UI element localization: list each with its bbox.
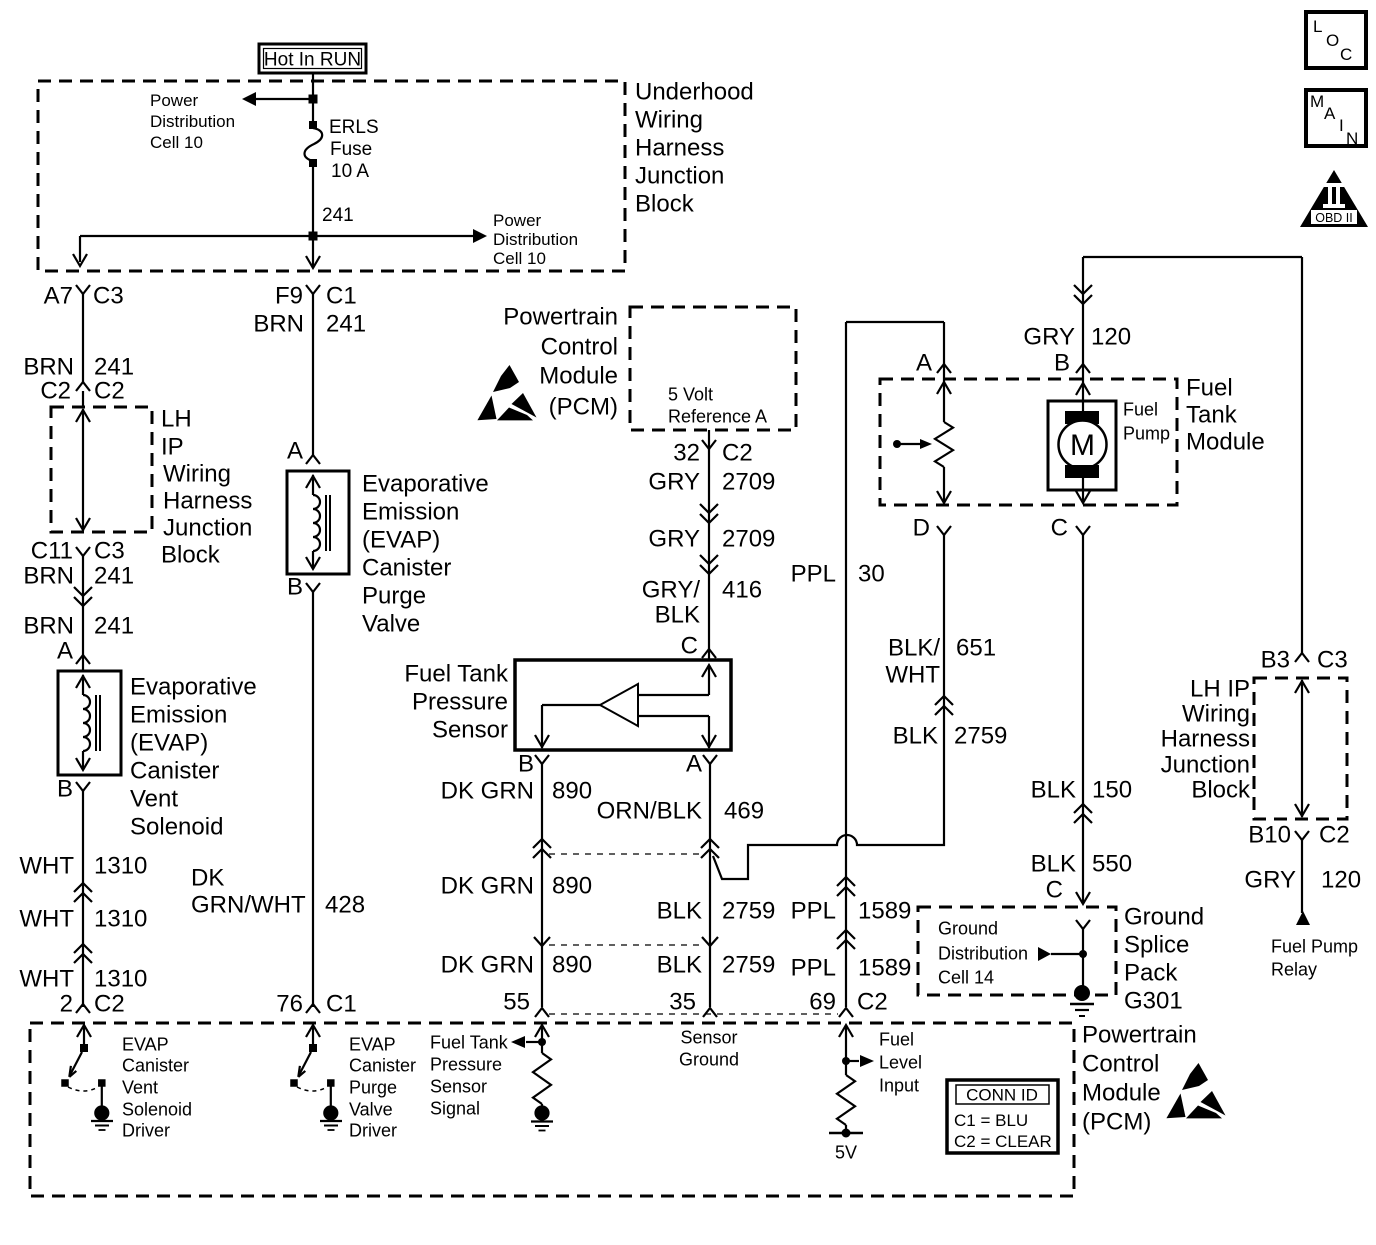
wire GRY 120 to fuel pump relay xyxy=(1301,840,1303,913)
pressure sensor internal input from C xyxy=(702,665,716,677)
svg-text:GRY: GRY xyxy=(1244,867,1296,894)
svg-text:C2: C2 xyxy=(40,378,71,405)
wire branch to Power Distribution (right) xyxy=(80,235,474,237)
svg-text:GRY: GRY xyxy=(648,526,700,553)
svg-text:M: M xyxy=(1070,429,1095,462)
connector at ground splice xyxy=(1076,920,1090,929)
svg-text:241: 241 xyxy=(94,613,134,640)
splice chevrons on sensor ground wire xyxy=(701,839,719,848)
svg-text:C2: C2 xyxy=(1319,822,1350,849)
fuel level sender resistor xyxy=(943,379,945,422)
svg-text:Tank: Tank xyxy=(1186,402,1238,429)
svg-text:1310: 1310 xyxy=(94,853,147,880)
svg-text:2759: 2759 xyxy=(722,952,775,979)
svg-text:5 Volt: 5 Volt xyxy=(668,385,713,405)
svg-text:LH: LH xyxy=(161,406,192,433)
PCM dashed box xyxy=(30,1023,1074,1196)
arrow down at junction block exit left xyxy=(73,254,87,266)
svg-text:Canister: Canister xyxy=(130,758,219,785)
svg-text:Valve: Valve xyxy=(349,1100,393,1120)
svg-text:Powertrain: Powertrain xyxy=(503,304,618,331)
svg-text:BLK: BLK xyxy=(1031,851,1076,878)
svg-text:C1 = BLU: C1 = BLU xyxy=(954,1111,1028,1130)
svg-text:1310: 1310 xyxy=(94,966,147,993)
svg-text:76: 76 xyxy=(276,991,303,1018)
fuel level input (pin 69) xyxy=(839,1025,853,1037)
wire to ground G301 xyxy=(1082,929,1084,986)
splice chevrons on GRY 2709 upper xyxy=(700,504,718,513)
svg-text:Evaporative: Evaporative xyxy=(130,674,257,701)
svg-text:Cell 10: Cell 10 xyxy=(150,133,203,152)
svg-text:C2: C2 xyxy=(94,991,125,1018)
svg-text:Vent: Vent xyxy=(122,1078,158,1098)
svg-text:Relay: Relay xyxy=(1271,960,1317,980)
svg-text:890: 890 xyxy=(552,778,592,805)
svg-text:Ground: Ground xyxy=(938,919,998,939)
CONN ID legend box xyxy=(947,1080,1058,1153)
junction node at distribution branch xyxy=(309,232,318,241)
svg-text:Harness: Harness xyxy=(1161,726,1250,753)
svg-text:IP: IP xyxy=(161,434,184,461)
svg-text:OBD II: OBD II xyxy=(1315,211,1353,225)
wire BLK/WHT 651 - BLK 2759 from sender D xyxy=(713,535,944,879)
wire DK GRN/WHT 428 to PCM pin 76 xyxy=(312,592,314,1007)
svg-text:LH IP: LH IP xyxy=(1190,676,1250,703)
wire BRN 241 (C11 to solenoid) xyxy=(82,556,84,671)
splice chevrons on PPL lower xyxy=(837,930,855,939)
off-page arrow from Fuel Pump Relay xyxy=(1296,911,1310,925)
svg-text:BRN: BRN xyxy=(253,311,304,338)
svg-text:Module: Module xyxy=(1186,429,1265,456)
svg-text:C1: C1 xyxy=(326,991,357,1018)
svg-text:A: A xyxy=(1324,104,1336,123)
svg-text:B: B xyxy=(518,751,534,778)
svg-text:C: C xyxy=(1051,515,1068,542)
EVAP canister vent solenoid driver (pin 2) xyxy=(77,1025,91,1037)
svg-text:Ground: Ground xyxy=(1124,904,1204,931)
svg-text:ERLS: ERLS xyxy=(329,117,379,138)
svg-text:890: 890 xyxy=(552,952,592,979)
svg-text:Powertrain: Powertrain xyxy=(1082,1022,1197,1049)
harness dashed line lower xyxy=(549,944,702,946)
svg-text:Emission: Emission xyxy=(130,702,227,729)
svg-text:F9: F9 xyxy=(275,283,303,310)
wire branch to Power Distribution (left) xyxy=(252,98,313,100)
svg-text:WHT: WHT xyxy=(19,966,74,993)
svg-text:428: 428 xyxy=(325,892,365,919)
splice chevrons on BLK/WHT 651 xyxy=(935,696,953,705)
svg-text:B10: B10 xyxy=(1248,822,1291,849)
svg-text:GRY: GRY xyxy=(648,469,700,496)
svg-text:Harness: Harness xyxy=(635,135,724,162)
splice chevrons on DK GRN 890 upper xyxy=(533,839,551,848)
svg-text:890: 890 xyxy=(552,873,592,900)
splice chevrons on PPL upper xyxy=(837,877,855,886)
Hot In RUN power label box xyxy=(259,44,366,73)
svg-text:Canister: Canister xyxy=(122,1056,189,1076)
svg-text:PPL: PPL xyxy=(791,898,836,925)
svg-text:Pressure: Pressure xyxy=(412,689,508,716)
splice chevrons on WHT 1310 upper xyxy=(74,883,92,892)
svg-text:I: I xyxy=(1339,116,1344,135)
wire DK GRN 890 to PCM pin 55 xyxy=(541,764,543,1007)
svg-text:BLK: BLK xyxy=(657,898,702,925)
ESD sensitivity symbol bottom xyxy=(1166,1063,1225,1118)
EVAP canister purge valve driver (pin 76) xyxy=(306,1025,320,1037)
svg-text:EVAP: EVAP xyxy=(349,1035,396,1055)
wire drop to A7 connector xyxy=(79,236,81,262)
svg-text:A7: A7 xyxy=(44,283,73,310)
svg-text:Input: Input xyxy=(879,1076,919,1096)
svg-text:O: O xyxy=(1326,31,1339,50)
splice chevrons on BLK 150 xyxy=(1074,804,1092,813)
svg-text:Cell 10: Cell 10 xyxy=(493,249,546,268)
svg-text:2759: 2759 xyxy=(954,723,1007,750)
svg-text:Pack: Pack xyxy=(1124,960,1178,987)
svg-text:ORN/BLK: ORN/BLK xyxy=(597,798,702,825)
svg-text:1589: 1589 xyxy=(858,955,911,982)
svg-text:69: 69 xyxy=(809,989,836,1016)
branch to Ground Distribution Cell 14 xyxy=(1051,953,1083,955)
wire BRN 241 (F9 to purge valve) xyxy=(312,294,314,455)
fuel tank pressure sensor box xyxy=(515,660,731,750)
svg-text:WHT: WHT xyxy=(19,853,74,880)
off-page arrow to Power Distribution right xyxy=(473,229,487,243)
svg-text:GRN/WHT: GRN/WHT xyxy=(191,892,306,919)
svg-text:Distribution: Distribution xyxy=(938,944,1028,964)
svg-text:150: 150 xyxy=(1092,777,1132,804)
svg-text:241: 241 xyxy=(322,205,354,226)
connector chevron on DK GRN 890 lower xyxy=(534,937,550,946)
LH IP junction block dashed box (right) xyxy=(1254,678,1347,819)
svg-text:Wiring: Wiring xyxy=(635,107,703,134)
svg-text:DK: DK xyxy=(191,865,224,892)
svg-text:Fuel: Fuel xyxy=(1186,375,1233,402)
wire through LH IP junction block right xyxy=(1301,680,1303,817)
fuse ERLS 10 A xyxy=(309,121,317,129)
svg-text:Harness: Harness xyxy=(163,488,252,515)
splice chevrons on GRY 120 xyxy=(1074,285,1092,294)
svg-text:CONN ID: CONN ID xyxy=(966,1086,1038,1105)
svg-text:B3: B3 xyxy=(1261,647,1290,674)
5 Volt Reference A dashed box xyxy=(630,307,796,430)
fuel pump motor xyxy=(1048,401,1116,490)
svg-text:469: 469 xyxy=(724,798,764,825)
svg-text:Pressure: Pressure xyxy=(430,1055,502,1075)
svg-text:Splice: Splice xyxy=(1124,932,1189,959)
connector chevron on BLK 2759 lower xyxy=(702,937,718,946)
svg-text:BLK: BLK xyxy=(1031,777,1076,804)
svg-text:2709: 2709 xyxy=(722,469,775,496)
connector pin 69 of PCM xyxy=(839,1008,853,1017)
wire GRY 2709 upper xyxy=(708,449,710,660)
svg-text:A: A xyxy=(57,638,73,665)
svg-text:Solenoid: Solenoid xyxy=(122,1100,192,1120)
svg-text:A: A xyxy=(686,751,702,778)
fuel tank pressure sensor signal input (pin 55) xyxy=(535,1025,549,1037)
svg-text:WHT: WHT xyxy=(885,662,940,689)
svg-text:120: 120 xyxy=(1321,867,1361,894)
EVAP canister purge valve coil xyxy=(287,471,349,574)
splice chevrons on BRN 241 xyxy=(74,587,92,596)
svg-text:C: C xyxy=(1340,45,1352,64)
connector pin 35 of PCM xyxy=(703,1008,717,1017)
svg-text:C: C xyxy=(681,633,698,660)
MAIN legend box xyxy=(1306,90,1366,146)
svg-text:(EVAP): (EVAP) xyxy=(130,730,208,757)
ground G301 symbol xyxy=(1074,985,1090,1001)
svg-text:(PCM): (PCM) xyxy=(1082,1109,1151,1136)
OBD II legend symbol xyxy=(1300,170,1368,227)
pressure sensor internal line to A xyxy=(638,715,709,717)
connector pin 55 of PCM xyxy=(535,1008,549,1017)
svg-text:C3: C3 xyxy=(1317,647,1348,674)
svg-text:Fuel: Fuel xyxy=(879,1030,914,1050)
fuel tank module dashed box xyxy=(880,379,1177,505)
svg-text:DK GRN: DK GRN xyxy=(441,778,534,805)
wire ORN/BLK 469 to PCM pin 35 xyxy=(709,764,711,1007)
ground splice pack dashed box xyxy=(918,907,1116,995)
svg-text:C2: C2 xyxy=(857,989,888,1016)
svg-text:1310: 1310 xyxy=(94,906,147,933)
wire WHT 1310 to PCM pin 2 xyxy=(82,791,84,1007)
svg-text:C1: C1 xyxy=(326,283,357,310)
svg-text:5V: 5V xyxy=(835,1143,857,1163)
svg-text:WHT: WHT xyxy=(19,906,74,933)
svg-text:241: 241 xyxy=(326,311,366,338)
svg-text:Canister: Canister xyxy=(362,555,451,582)
svg-text:Level: Level xyxy=(879,1053,922,1073)
svg-text:Pump: Pump xyxy=(1123,424,1170,444)
svg-text:C: C xyxy=(1046,877,1063,904)
svg-text:B: B xyxy=(57,776,73,803)
svg-text:Control: Control xyxy=(1082,1051,1159,1078)
svg-text:BLK: BLK xyxy=(893,723,938,750)
svg-text:Module: Module xyxy=(1082,1080,1161,1107)
svg-text:241: 241 xyxy=(94,563,134,590)
wire PPL 30 from fuel level sender xyxy=(846,321,944,323)
svg-text:Block: Block xyxy=(635,191,695,218)
svg-text:Hot In RUN: Hot In RUN xyxy=(264,49,361,70)
svg-text:Emission: Emission xyxy=(362,499,459,526)
svg-text:B: B xyxy=(287,574,303,601)
svg-text:M: M xyxy=(1310,92,1324,111)
svg-text:L: L xyxy=(1313,17,1322,36)
svg-text:Fuel Tank: Fuel Tank xyxy=(404,661,509,688)
svg-text:Fuel Pump: Fuel Pump xyxy=(1271,937,1358,957)
svg-text:55: 55 xyxy=(503,989,530,1016)
svg-text:Power: Power xyxy=(150,91,199,110)
svg-text:D: D xyxy=(913,515,930,542)
svg-text:Driver: Driver xyxy=(349,1121,397,1141)
svg-text:Canister: Canister xyxy=(349,1056,416,1076)
harness dashed line upper xyxy=(549,853,702,855)
svg-text:Junction: Junction xyxy=(1161,752,1250,779)
LH IP junction block dashed box (left) xyxy=(51,407,152,532)
svg-text:Purge: Purge xyxy=(349,1078,397,1098)
svg-text:1589: 1589 xyxy=(858,898,911,925)
svg-text:241: 241 xyxy=(94,354,134,381)
svg-text:Block: Block xyxy=(161,542,221,569)
svg-text:416: 416 xyxy=(722,577,762,604)
svg-text:A: A xyxy=(287,438,303,465)
pressure sensor internal output to B xyxy=(542,704,600,706)
junction node ground splice xyxy=(1079,950,1087,958)
svg-text:C3: C3 xyxy=(94,538,125,565)
svg-text:C11: C11 xyxy=(31,538,73,565)
svg-text:550: 550 xyxy=(1092,851,1132,878)
svg-text:Junction: Junction xyxy=(163,515,252,542)
svg-text:DK GRN: DK GRN xyxy=(441,952,534,979)
svg-text:Sensor: Sensor xyxy=(430,1077,487,1097)
svg-text:DK GRN: DK GRN xyxy=(441,873,534,900)
svg-text:Underhood: Underhood xyxy=(635,79,754,106)
svg-text:B: B xyxy=(1054,350,1070,377)
svg-text:Block: Block xyxy=(1191,777,1251,804)
splice chevrons on WHT 1310 lower xyxy=(74,944,92,953)
fuel level sender wiper arrow xyxy=(893,440,901,448)
svg-text:Sensor: Sensor xyxy=(680,1028,737,1048)
ESD sensitivity symbol top xyxy=(477,365,536,420)
svg-text:BLK: BLK xyxy=(655,602,700,629)
svg-text:Purge: Purge xyxy=(362,583,426,610)
wire BLK 150 to ground splice xyxy=(1082,535,1084,903)
svg-text:Wiring: Wiring xyxy=(163,461,231,488)
svg-text:C2: C2 xyxy=(94,378,125,405)
svg-text:Ground: Ground xyxy=(679,1050,739,1070)
svg-text:Module: Module xyxy=(539,363,618,390)
svg-text:Driver: Driver xyxy=(122,1121,170,1141)
svg-text:2709: 2709 xyxy=(722,526,775,553)
svg-text:Vent: Vent xyxy=(130,786,178,813)
svg-text:EVAP: EVAP xyxy=(122,1035,169,1055)
svg-text:(PCM): (PCM) xyxy=(549,394,618,421)
wire GRY 120 feed from relay xyxy=(1083,256,1302,258)
svg-text:N: N xyxy=(1346,129,1358,148)
svg-text:Control: Control xyxy=(541,334,618,361)
svg-text:Power: Power xyxy=(493,211,542,230)
svg-text:Sensor: Sensor xyxy=(432,717,508,744)
svg-text:GRY: GRY xyxy=(1023,324,1075,351)
svg-text:2759: 2759 xyxy=(722,898,775,925)
svg-text:BLK/: BLK/ xyxy=(888,635,940,662)
EVAP canister vent solenoid coil xyxy=(58,671,121,775)
svg-text:Signal: Signal xyxy=(430,1099,480,1119)
svg-text:GRY/: GRY/ xyxy=(642,577,701,604)
svg-text:BRN: BRN xyxy=(23,354,74,381)
svg-text:32: 32 xyxy=(673,440,700,467)
pressure sensor amplifier triangle xyxy=(600,684,638,726)
svg-text:Wiring: Wiring xyxy=(1182,701,1250,728)
svg-text:A: A xyxy=(916,350,932,377)
wire into LH IP junction block xyxy=(82,391,84,408)
svg-text:PPL: PPL xyxy=(791,955,836,982)
off-page arrow to Power Distribution left xyxy=(242,92,256,106)
wire through LH IP junction block xyxy=(82,409,84,531)
svg-text:30: 30 xyxy=(858,561,885,588)
wire from Hot In RUN through fuse xyxy=(312,73,314,127)
svg-text:Fuse: Fuse xyxy=(330,139,372,160)
svg-text:Valve: Valve xyxy=(362,611,420,638)
svg-text:Fuel Tank: Fuel Tank xyxy=(430,1033,509,1053)
svg-text:Reference A: Reference A xyxy=(668,407,767,427)
svg-text:Fuel: Fuel xyxy=(1123,400,1158,420)
svg-text:10 A: 10 A xyxy=(331,161,369,182)
svg-text:C2: C2 xyxy=(722,440,753,467)
svg-text:Solenoid: Solenoid xyxy=(130,814,223,841)
svg-text:Evaporative: Evaporative xyxy=(362,471,489,498)
svg-text:Junction: Junction xyxy=(635,163,724,190)
svg-text:BLK: BLK xyxy=(657,952,702,979)
svg-text:35: 35 xyxy=(669,989,696,1016)
svg-text:C2 = CLEAR: C2 = CLEAR xyxy=(954,1132,1052,1151)
svg-text:Cell 14: Cell 14 xyxy=(938,968,994,988)
wire from 5V reference to connector 32 xyxy=(708,430,710,449)
svg-text:651: 651 xyxy=(956,635,996,662)
junction node at power feed branch xyxy=(309,95,318,104)
svg-text:Distribution: Distribution xyxy=(493,230,578,249)
svg-text:G301: G301 xyxy=(1124,988,1183,1015)
svg-text:C3: C3 xyxy=(93,283,124,310)
svg-text:PPL: PPL xyxy=(791,561,836,588)
svg-text:Distribution: Distribution xyxy=(150,112,235,131)
svg-text:2: 2 xyxy=(60,991,73,1018)
svg-text:BRN: BRN xyxy=(23,563,74,590)
wire BRN 241 (A7 to C2) xyxy=(82,294,84,382)
LOC legend box xyxy=(1306,12,1366,68)
svg-text:120: 120 xyxy=(1091,324,1131,351)
arrow down at junction block exit centre xyxy=(306,256,320,268)
underhood junction block dashed box xyxy=(38,81,625,271)
splice chevrons on GRY 2709 lower xyxy=(700,555,718,564)
svg-text:BRN: BRN xyxy=(23,613,74,640)
svg-text:(EVAP): (EVAP) xyxy=(362,527,440,554)
connector C2 dashed line at PCM xyxy=(549,1013,838,1015)
